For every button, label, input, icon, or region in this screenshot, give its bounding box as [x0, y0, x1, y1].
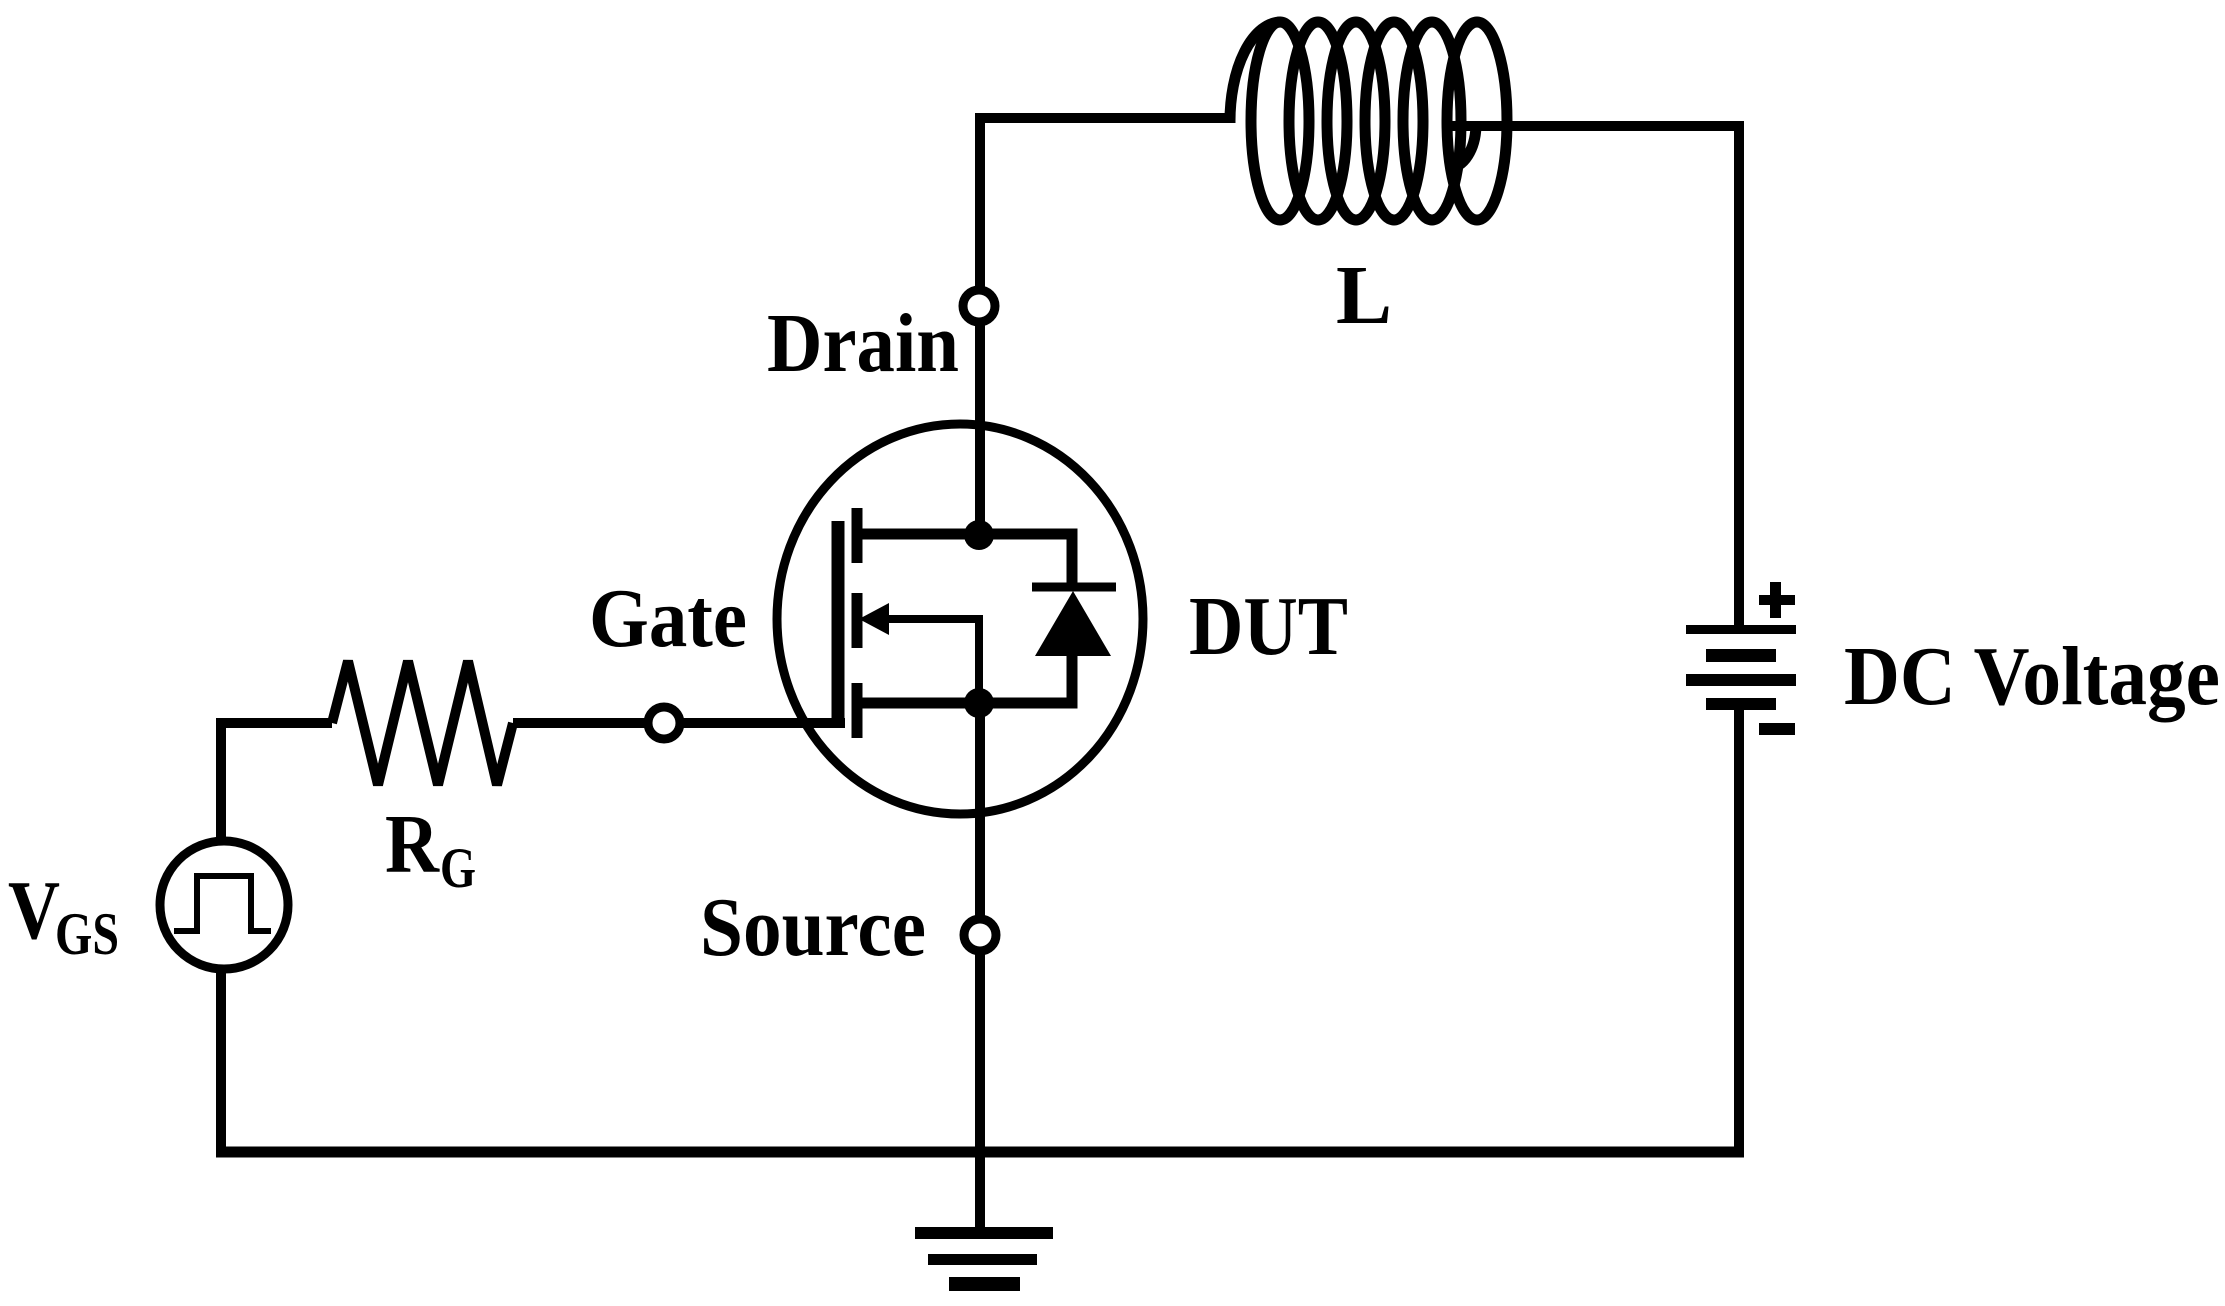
body arrowhead — [859, 603, 889, 635]
gate electrode bar — [832, 521, 845, 728]
svg-text:Drain: Drain — [767, 297, 959, 390]
svg-text:GS: GS — [55, 901, 119, 967]
MOSFET U1 (DUT) body circle — [777, 424, 1143, 814]
svg-text:Gate: Gate — [589, 572, 747, 665]
terminal node Source — [964, 919, 996, 951]
pulse source VGS — [160, 841, 288, 969]
svg-text:Source: Source — [700, 881, 926, 974]
svg-text:DC Voltage: DC Voltage — [1844, 630, 2220, 723]
body arrow line — [884, 619, 979, 703]
junction dot source — [964, 688, 994, 718]
resistor RG — [332, 661, 513, 785]
svg-text:R: R — [385, 798, 440, 891]
svg-text:V: V — [8, 864, 60, 957]
wire right: inductor to battery top — [1447, 126, 1739, 626]
drain internal lead — [854, 534, 1072, 587]
wire gate: resistor to MOSFET gate bar — [513, 718, 845, 728]
svg-text:L: L — [1336, 249, 1392, 342]
terminal node Drain — [963, 290, 995, 322]
junction dot drain — [964, 520, 994, 550]
channel dash bottom — [852, 683, 863, 738]
battery DC Voltage — [1686, 582, 1796, 735]
wire source: MOSFET to ground through bottom rail — [975, 703, 985, 1227]
wire top-left: drain riser and top horizontal to inductor — [980, 118, 1232, 535]
body diode cathode bar — [1032, 583, 1116, 592]
terminal node Gate — [648, 707, 680, 739]
channel dash top — [852, 508, 863, 563]
channel dash middle — [852, 593, 863, 648]
body diode triangle — [1035, 591, 1111, 656]
wire right: battery bottom to bottom rail — [1734, 710, 1744, 1157]
wire left branch: VGS loop up to resistor — [221, 723, 332, 1152]
ground — [915, 1227, 1053, 1291]
svg-text:DUT: DUT — [1189, 580, 1348, 673]
svg-text:G: G — [440, 837, 476, 900]
source internal lead — [854, 655, 1072, 703]
inductor L — [1230, 22, 1507, 220]
wire bottom rail — [216, 1147, 1744, 1158]
